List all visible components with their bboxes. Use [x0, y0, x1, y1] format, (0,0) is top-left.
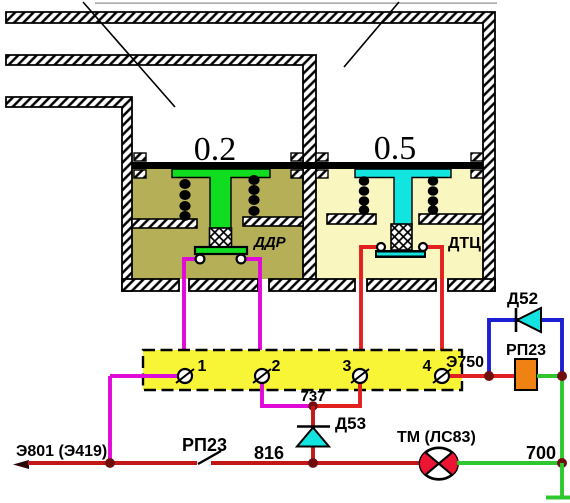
svg-text:Д52: Д52: [507, 289, 538, 308]
wire right node to bottom (green): [560, 463, 564, 499]
floor segment 5: [448, 279, 495, 291]
svg-text:РП23: РП23: [506, 342, 546, 359]
DDR contact circle right: [237, 255, 246, 264]
DTC contact bar: [375, 250, 426, 258]
node 737 dot: [308, 401, 317, 410]
wire terminal3 down to node 737 (red): [313, 381, 360, 406]
svg-text:ДДР: ДДР: [252, 234, 287, 251]
DDR spring right: [248, 175, 259, 216]
wire terminal4 to relay (red): [447, 374, 516, 378]
DTC spring left: [359, 176, 370, 215]
terminal 3: [351, 369, 369, 383]
section diagonal left: [83, 2, 175, 107]
wire node737 to bus (dark red): [311, 406, 315, 463]
DDR plunger T: [172, 169, 270, 229]
DTC wire right (red): [426, 247, 442, 370]
DDR insulator crosshatch: [210, 228, 232, 247]
svg-text:3: 3: [343, 358, 352, 375]
shelf DDR right: [243, 217, 303, 226]
diode D52: [516, 308, 541, 332]
terminal 1: [176, 369, 194, 383]
clamp square mid-right bottom: [316, 170, 328, 178]
terminal 4: [433, 369, 451, 383]
wire terminal1 to left drop (magenta): [110, 374, 180, 378]
bus junction magenta dot: [105, 458, 115, 468]
wall: inner pipe + left wall: [6, 97, 132, 291]
DTC contact circle left: [377, 243, 385, 251]
diode D53: [297, 427, 330, 447]
blue branch with diode D52: [489, 320, 562, 376]
shelf DTC left: [327, 214, 376, 224]
DTC plunger T: [355, 169, 451, 225]
node 700 dot: [557, 458, 567, 468]
bus segment middle (dark red): [211, 461, 421, 465]
svg-text:Э750: Э750: [446, 354, 484, 371]
svg-text:ТМ (ЛС83): ТМ (ЛС83): [397, 429, 476, 446]
switch RP23 blade: [198, 451, 221, 464]
wire terminal2 down to node 737 (magenta): [262, 381, 310, 406]
clamp square right bottom: [471, 170, 483, 178]
floor segment 2: [189, 279, 258, 291]
bus segment left (dark red): [28, 461, 197, 465]
wall: outer pipe top + right wall: [6, 12, 495, 291]
section diagonal right: [344, 2, 399, 67]
diaphragm bar: [132, 162, 483, 169]
DDR contact circle left: [196, 255, 205, 264]
svg-text:4: 4: [423, 358, 432, 375]
relay coil RP23: [515, 359, 537, 390]
floor segment 1: [122, 279, 179, 291]
svg-text:0.5: 0.5: [374, 130, 417, 167]
node D53 bottom dot: [308, 458, 318, 468]
terminal block: [143, 350, 462, 390]
floor segment 4: [367, 279, 436, 291]
DDR wire right (magenta): [241, 259, 260, 370]
svg-text:700: 700: [526, 443, 556, 463]
chamber DTC background: [316, 167, 483, 279]
floor segment 3: [269, 279, 355, 291]
svg-text:Э801 (Э419): Э801 (Э419): [16, 443, 107, 460]
svg-text:Д53: Д53: [335, 414, 366, 433]
svg-text:1: 1: [198, 358, 207, 375]
svg-text:РП23: РП23: [182, 435, 227, 455]
bus left arrow: [13, 460, 29, 469]
DTC insulator crosshatch: [391, 224, 412, 250]
wire relay to right node (green): [537, 374, 562, 378]
svg-text:816: 816: [254, 443, 284, 463]
terminal 2: [253, 369, 271, 383]
DTC wire left (red): [361, 247, 378, 370]
wire lamp to right (green): [457, 461, 562, 465]
lamp TM: [420, 448, 458, 480]
svg-text:0.2: 0.2: [194, 131, 237, 168]
shelf DTC right: [419, 214, 483, 224]
DTC spring right: [428, 176, 439, 215]
shelf DDR left: [132, 219, 197, 228]
clamp square left bottom: [134, 170, 146, 178]
clamp square left top: [134, 153, 146, 161]
wall: middle pipe + mid wall: [6, 55, 316, 291]
svg-text:2: 2: [272, 358, 281, 375]
clamp square mid-left top: [291, 153, 303, 161]
DDR spring left: [179, 179, 190, 221]
wire right node down (green): [560, 376, 564, 463]
clamp square mid-right top: [316, 153, 328, 161]
clamp square right top: [471, 153, 483, 161]
wire bottom stub (green): [546, 496, 570, 500]
svg-text:ДТЦ: ДТЦ: [448, 235, 481, 252]
clamp square mid-left bottom: [291, 170, 303, 178]
DTC contact circle right: [419, 243, 427, 251]
node E750 dot: [484, 371, 494, 381]
node right top dot: [557, 371, 567, 381]
wire left drop to bus (magenta): [108, 376, 112, 463]
DDR contact bar: [195, 247, 247, 254]
DDR wire left (magenta): [184, 259, 200, 370]
chamber DDR background: [132, 167, 303, 279]
